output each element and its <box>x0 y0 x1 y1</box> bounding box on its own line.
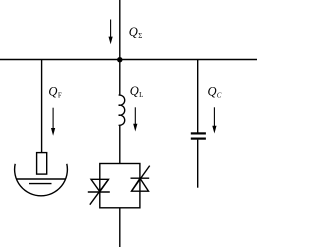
inductor L (reactor coil) <box>119 95 125 125</box>
capacitor C top plate <box>191 132 206 134</box>
wire (reactor branch, bus to coil) <box>119 60 121 96</box>
bus (horizontal busbar) <box>0 59 257 61</box>
thyristor V2 cathode bar <box>131 177 150 179</box>
electrode (arc furnace electrode) <box>37 153 47 175</box>
wire (capacitor to open end) <box>197 140 199 188</box>
svg-text:QΣ: QΣ <box>129 25 143 40</box>
arrow QC (power-flow arrow) <box>212 107 216 133</box>
thyristor V2 (right, conducting up): triangle <box>132 178 149 191</box>
wire (furnace branch drop) <box>41 60 43 153</box>
thyristor V1 cathode bar <box>88 191 110 193</box>
node (bus junction dot) <box>117 57 122 62</box>
furnace melt second line <box>29 183 52 185</box>
svg-text:QC: QC <box>208 85 222 100</box>
wire (capacitor branch drop) <box>197 60 199 133</box>
arrow QΣ (power-flow arrow) <box>109 20 113 45</box>
wire (coil to valve box) <box>119 125 121 164</box>
thyristor V1 gate (side extended) <box>90 179 109 204</box>
thyristor valve loop (box) <box>100 164 140 208</box>
svg-text:QL: QL <box>130 84 144 99</box>
thyristor V2 gate (side extended) <box>132 166 150 192</box>
wire (incoming feeder from top) <box>119 0 121 60</box>
thyristor V1 (left, conducting down): triangle <box>91 179 109 191</box>
furnace melt surface line <box>16 178 65 180</box>
arrow QL (power-flow arrow) <box>133 107 137 131</box>
wire (valve box to bottom) <box>119 208 121 247</box>
svg-text:QF: QF <box>48 85 61 100</box>
arc furnace bowl <box>15 164 68 196</box>
arrow QF (power-flow arrow) <box>51 108 55 136</box>
capacitor C bottom plate <box>191 138 206 140</box>
